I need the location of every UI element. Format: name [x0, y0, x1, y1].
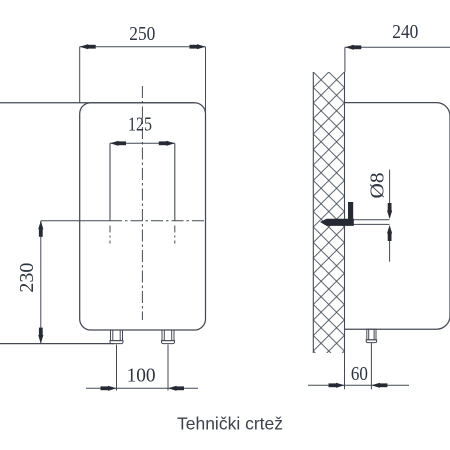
bracket centerline stub left: [109, 226, 111, 244]
screw anchor in wall (filled): [320, 219, 354, 226]
arrow 125 left: [110, 141, 126, 146]
mounting bracket right line: [174, 143, 176, 221]
dimension 60 line: [308, 384, 409, 386]
arrow Ø8 lower: [387, 225, 392, 241]
mounting bracket left line: [109, 143, 111, 221]
svg-text:Ø8: Ø8: [367, 173, 388, 199]
extension line for 230 dim (solid part): [41, 220, 110, 222]
svg-text:60: 60: [351, 364, 368, 385]
dimension 60 extension line left (wall face below wall): [344, 353, 346, 389]
svg-text:230: 230: [17, 263, 38, 293]
arrow 250 right: [190, 44, 206, 49]
arrow 100 left: [101, 386, 117, 391]
dimension 250 extension line left: [79, 47, 81, 103]
arrow Ø8 upper: [387, 203, 392, 219]
arrow 240: [345, 45, 361, 50]
dimension Ø8 line lower: [389, 227, 391, 262]
arrow 230 top: [38, 221, 43, 237]
dimension 240 extension line: [344, 47, 346, 72]
dimension 250 line: [80, 46, 206, 48]
bracket centerline stub right: [174, 226, 176, 244]
dimension 100 extension line right: [167, 345, 169, 391]
svg-text:100: 100: [127, 365, 156, 386]
arrow 100 right: [168, 386, 184, 391]
svg-text:125: 125: [128, 115, 152, 136]
mounting screw shaft: [345, 220, 390, 225]
projection line bottom (from left image edge to left nozzle): [0, 343, 114, 345]
dimension 125 line: [110, 142, 175, 144]
centerline horizontal at bracket level: [110, 220, 206, 222]
nozzle front right: [162, 330, 175, 344]
dimension 250 extension line right: [205, 47, 207, 113]
boiler body front view: [80, 103, 206, 330]
arrow 250 left: [80, 44, 96, 49]
svg-text:250: 250: [129, 24, 155, 45]
arrow 60 right: [371, 383, 387, 388]
projection line top (from left image edge to body): [0, 102, 195, 104]
dimension 100 line: [86, 387, 198, 389]
dimension 240 line: [345, 46, 450, 48]
dimension 230 line: [40, 221, 42, 344]
svg-text:Tehnički crtež: Tehnički crtež: [177, 414, 283, 434]
svg-text:240: 240: [392, 22, 418, 43]
arrow 60 left: [329, 383, 345, 388]
arrow 230 bottom: [38, 328, 43, 344]
dimension 60 extension line right (nozzle center): [370, 343, 372, 390]
nozzle side view: [366, 329, 376, 342]
dimension 100 extension line left: [116, 345, 118, 391]
bracket hook bar (filled): [348, 202, 353, 221]
wall section (side view): [313, 72, 344, 353]
dimension Ø8 line upper: [389, 170, 391, 217]
nozzle front left: [110, 330, 123, 344]
boiler body side view: [345, 103, 450, 330]
centerline vertical front view: [141, 86, 143, 320]
arrow 125 right: [159, 141, 175, 146]
